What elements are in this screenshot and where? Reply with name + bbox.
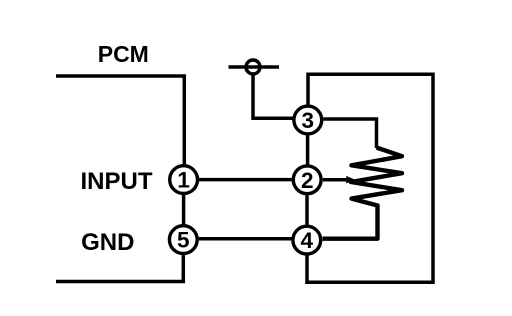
svg-text:GND: GND: [81, 229, 134, 256]
svg-text:4: 4: [301, 228, 314, 253]
svg-text:3: 3: [302, 108, 315, 133]
svg-text:1: 1: [177, 168, 190, 193]
svg-text:INPUT: INPUT: [81, 168, 153, 195]
svg-text:2: 2: [301, 168, 314, 193]
svg-text:5: 5: [177, 228, 190, 253]
svg-text:PCM: PCM: [98, 41, 149, 67]
